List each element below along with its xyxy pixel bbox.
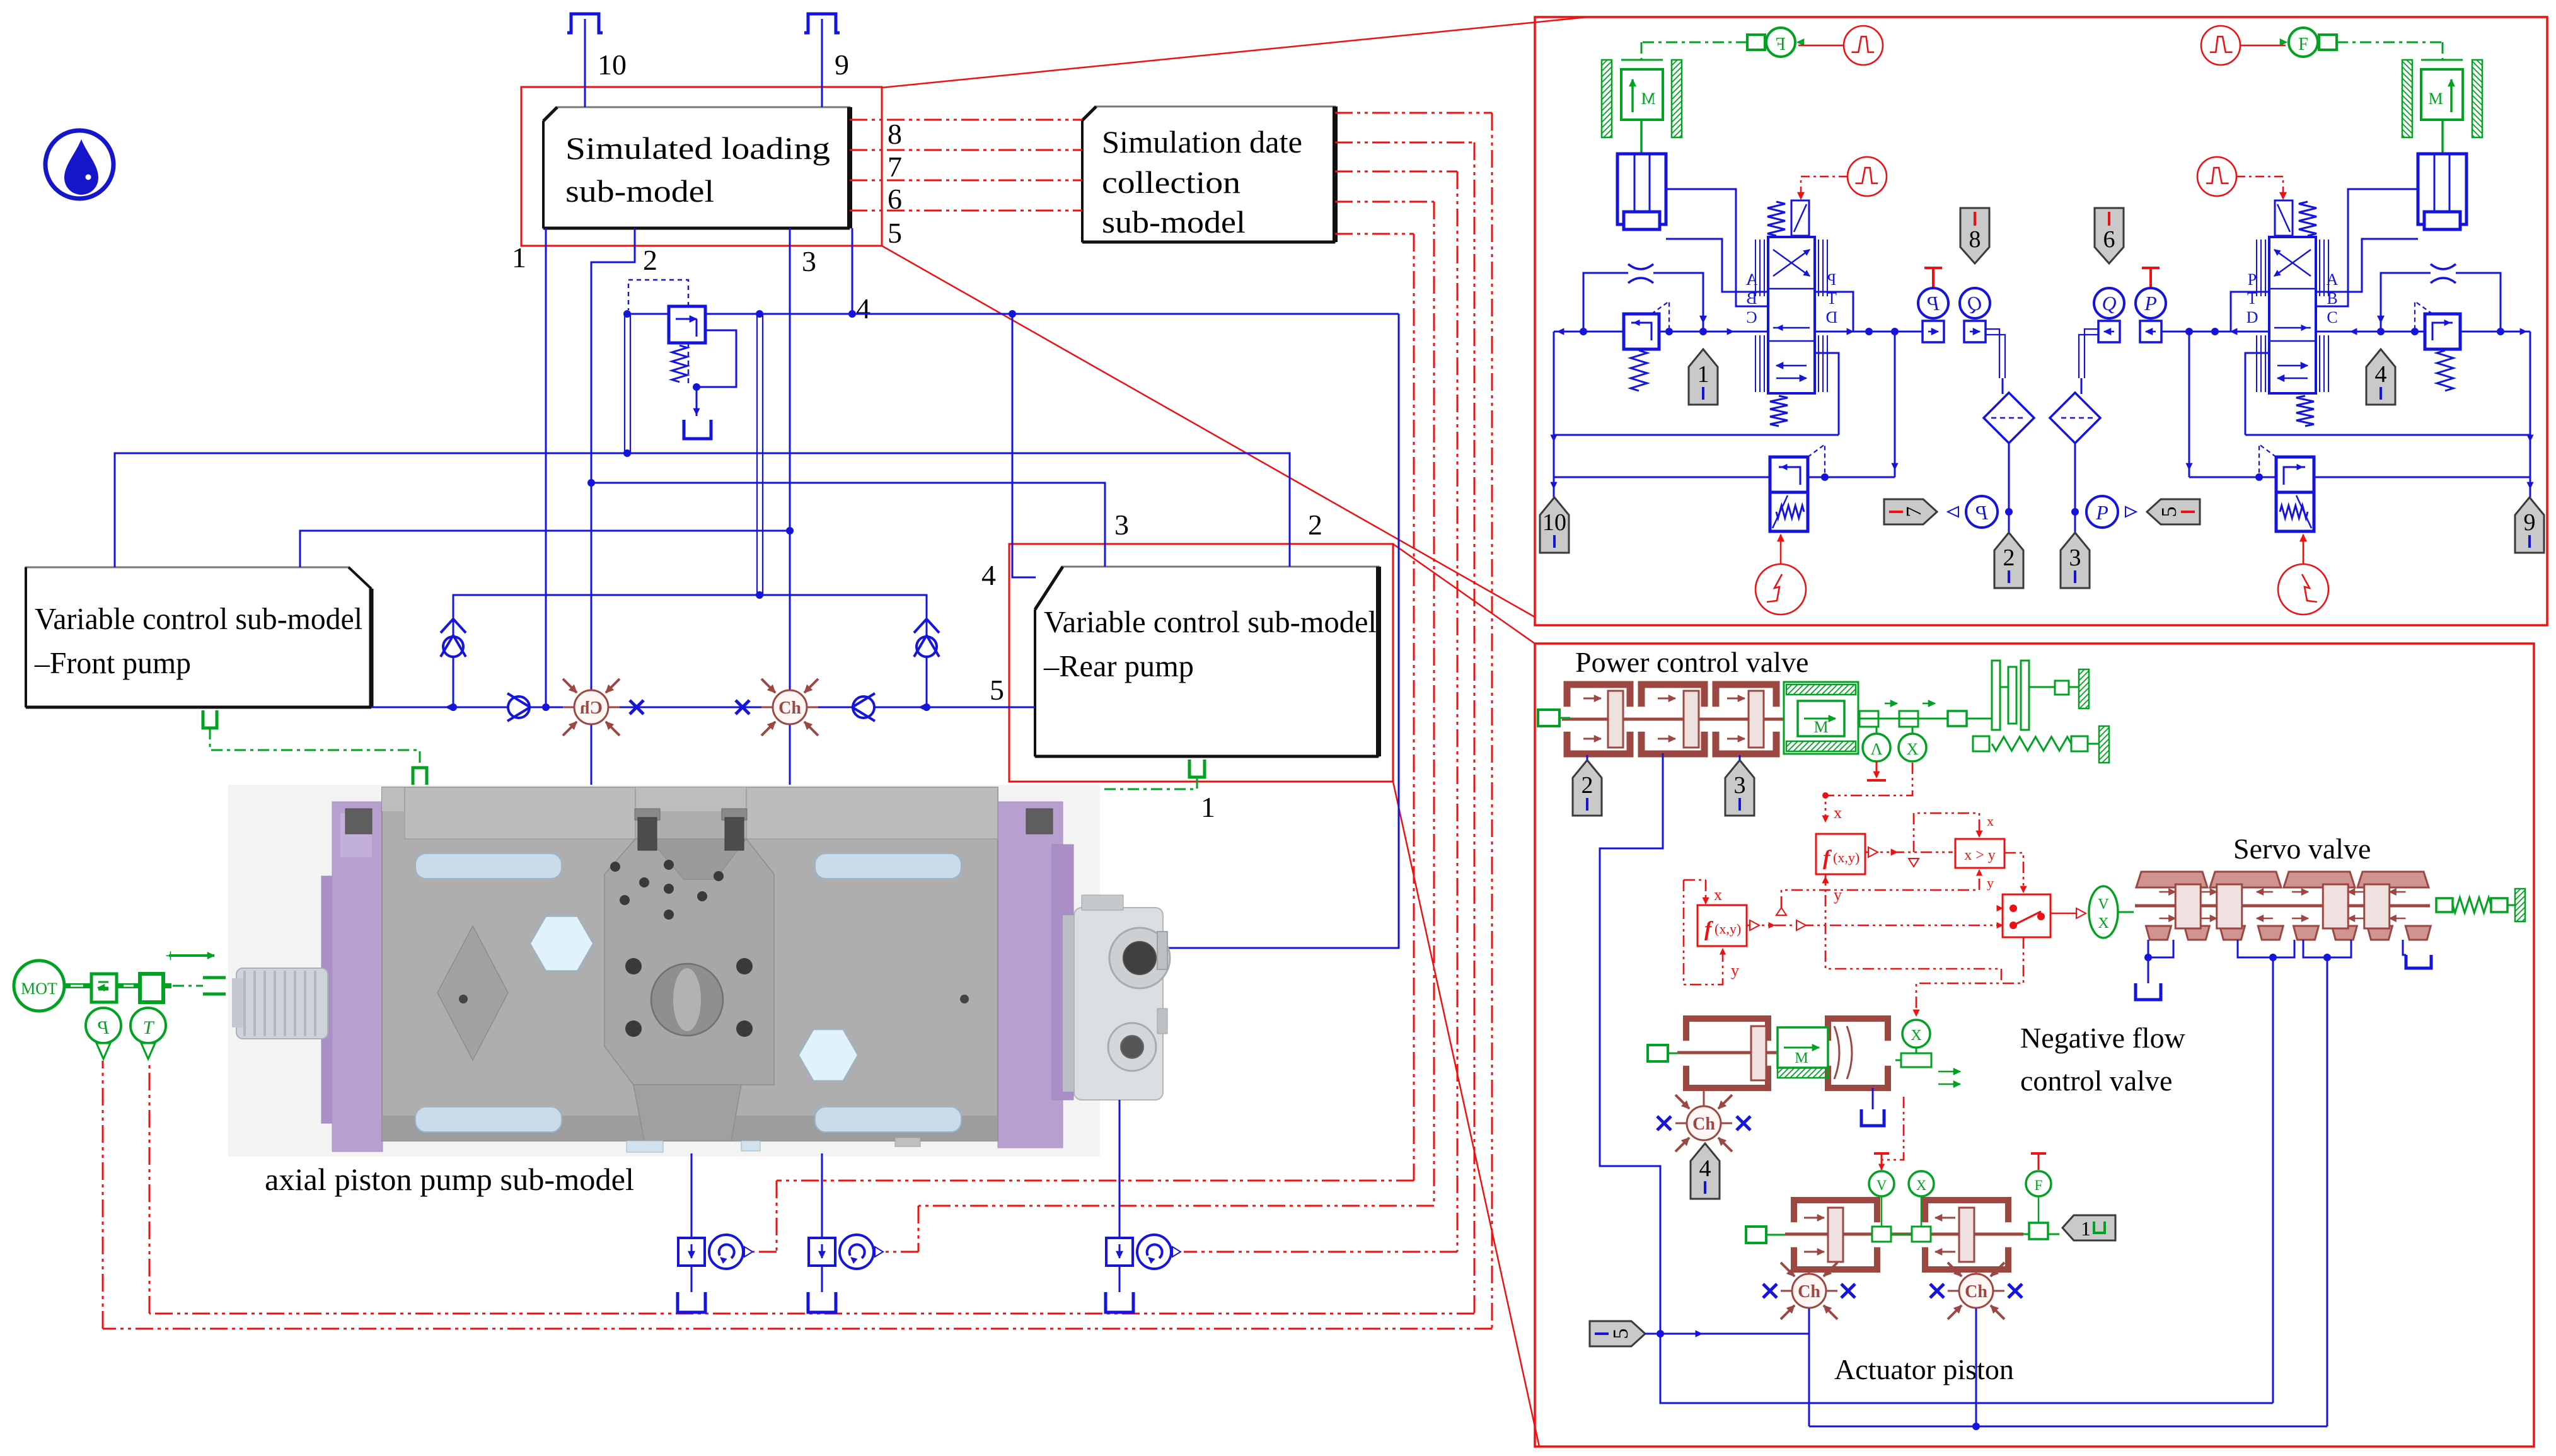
Q gauge xyxy=(2094,288,2124,318)
svg-text:Variable control sub-model: Variable control sub-model xyxy=(1044,604,1377,639)
svg-text:D: D xyxy=(1826,308,1838,326)
signal source 2 xyxy=(1848,157,1887,196)
speed arrow xyxy=(169,954,214,957)
svg-text:x: x xyxy=(1987,813,1994,829)
flow sensor S3 xyxy=(1106,1238,1133,1266)
svg-text:P: P xyxy=(2095,501,2108,524)
svg-text:2: 2 xyxy=(1308,509,1322,541)
wire H944 xyxy=(453,595,927,707)
P gauge xyxy=(1918,288,1948,318)
H2 xyxy=(2245,434,2530,436)
check valve CV3 (vertical) xyxy=(917,637,937,657)
wire port4 vertical xyxy=(852,228,853,314)
svg-text:3: 3 xyxy=(1734,772,1746,799)
linkage spring xyxy=(1973,736,1989,751)
main line H1 xyxy=(2460,331,2530,333)
V X circles xyxy=(1859,711,1878,727)
svg-text:M: M xyxy=(1641,90,1655,108)
svg-text:Negative flow: Negative flow xyxy=(2020,1022,2186,1054)
wire port4b vertical xyxy=(1012,314,1036,577)
svg-text:5: 5 xyxy=(990,674,1004,706)
svg-text:y: y xyxy=(1987,875,1994,891)
left edge vertical xyxy=(2530,332,2531,497)
svg-text:9: 9 xyxy=(835,49,849,81)
red zoom rect (rear pump) xyxy=(1009,544,1393,782)
svg-text:P: P xyxy=(98,1017,110,1038)
servo valve body xyxy=(2136,872,2207,887)
pump right purple flange xyxy=(998,802,1063,1148)
pump top bolts xyxy=(635,809,660,820)
svg-text:x: x xyxy=(1834,804,1842,822)
zoom diagonal D3 xyxy=(1393,544,1535,644)
svg-text:sub-model: sub-model xyxy=(1102,204,1246,240)
svg-text:Λ: Λ xyxy=(1871,740,1883,758)
wire port1 vertical xyxy=(545,228,547,707)
tank T1 xyxy=(684,420,711,439)
F source xyxy=(2289,28,2318,57)
wire to rear pump outlet xyxy=(1163,314,1399,948)
svg-text:1: 1 xyxy=(2081,1217,2091,1240)
cylinder-valve link xyxy=(2316,189,2418,306)
svg-text:A: A xyxy=(1745,270,1757,289)
svg-text:X: X xyxy=(1907,740,1919,758)
mass with guides xyxy=(2472,60,2482,137)
svg-text:A: A xyxy=(2327,270,2339,289)
svg-text:F: F xyxy=(1776,35,1786,54)
pump gearbox xyxy=(1063,915,1080,1092)
svg-text:Simulation date: Simulation date xyxy=(1102,124,1302,159)
P gauge xyxy=(2136,288,2166,318)
flow sensor S1 xyxy=(678,1238,705,1266)
elbow pipe to filter xyxy=(2085,329,2099,378)
svg-text:P: P xyxy=(1827,270,1836,289)
signal feedback horizontals bottom xyxy=(103,1328,1492,1330)
main line H1 xyxy=(1554,331,1624,333)
signal source 1 xyxy=(2201,26,2240,65)
pump small holes xyxy=(625,958,642,974)
wire H842 xyxy=(300,531,790,567)
svg-text:X: X xyxy=(1916,1177,1927,1193)
relief valve B xyxy=(1770,457,1808,492)
VX oval xyxy=(2089,886,2118,938)
svg-text:Actuator piston: Actuator piston xyxy=(1834,1353,2014,1385)
svg-text:1: 1 xyxy=(512,241,526,274)
svg-text:X: X xyxy=(2098,915,2108,932)
svg-text:5: 5 xyxy=(1609,1329,1633,1339)
pipe double vertical x995 xyxy=(624,314,625,453)
green linkage assembly xyxy=(1948,711,1967,726)
cylinder xyxy=(2418,154,2466,224)
check valve CV2 xyxy=(853,696,874,718)
H2 xyxy=(1554,434,1839,436)
svg-text:(x,y): (x,y) xyxy=(1833,850,1859,865)
green port pump front xyxy=(413,768,427,785)
wire H1122 main pump line xyxy=(371,707,1035,708)
tags top-right box xyxy=(1689,349,1718,405)
bottom box blue wiring xyxy=(1600,753,2273,1403)
mass with guides xyxy=(1602,60,1612,137)
svg-text:Ch: Ch xyxy=(778,698,801,718)
power control valve spool xyxy=(1567,685,1630,707)
directional valve xyxy=(2299,202,2316,236)
filter down line xyxy=(2008,442,2010,533)
svg-text:X: X xyxy=(1911,1027,1921,1044)
relief valve A xyxy=(1624,314,1659,349)
orifice loop xyxy=(2456,273,2501,332)
svg-text:F: F xyxy=(2035,1177,2043,1193)
signal lines collection->right xyxy=(1335,112,1492,114)
wire port3 vertical xyxy=(789,228,791,692)
P gauge bottom xyxy=(2086,496,2118,528)
RV1 drain loop xyxy=(697,330,736,387)
svg-text:8: 8 xyxy=(888,118,902,150)
relief valve B xyxy=(2276,457,2314,492)
actuator V X F circles xyxy=(1869,1171,1894,1196)
H3 xyxy=(2314,477,2530,478)
directional valve xyxy=(1767,202,1785,236)
svg-text:7: 7 xyxy=(888,151,902,183)
svg-text:M: M xyxy=(1795,1050,1808,1066)
red detail box top-right xyxy=(1535,17,2547,625)
orifice Ch1 xyxy=(574,690,608,724)
svg-text:x > y: x > y xyxy=(1964,847,1996,864)
svg-text:4: 4 xyxy=(856,292,870,325)
svg-text:5: 5 xyxy=(888,217,902,249)
X circle NFC xyxy=(1902,1020,1930,1048)
servo spring xyxy=(2436,898,2453,912)
svg-text:collection: collection xyxy=(1102,165,1240,200)
Ch NFC xyxy=(1703,1088,1705,1106)
svg-text:MOT: MOT xyxy=(21,979,57,998)
F source xyxy=(1766,28,1795,57)
tag 1 actuator xyxy=(2062,1215,2115,1240)
left edge vertical xyxy=(1553,332,1555,497)
top-right detail : right half (mirrored) xyxy=(2050,26,2533,615)
svg-text:Servo valve: Servo valve xyxy=(2233,833,2371,865)
relief valve A xyxy=(2425,314,2460,349)
svg-text:2: 2 xyxy=(643,244,657,276)
svg-text:Q: Q xyxy=(1967,292,1982,315)
cylinder-valve link xyxy=(1666,189,1768,306)
svg-text:4: 4 xyxy=(1699,1155,1711,1182)
valve right links xyxy=(1815,292,1853,332)
pump top raised blocks xyxy=(405,787,635,839)
svg-text:–Rear pump: –Rear pump xyxy=(1043,649,1194,683)
actuator Ch symbols xyxy=(1808,1269,1810,1274)
svg-text:2: 2 xyxy=(2003,545,2015,571)
red zoom rect (loading) xyxy=(521,87,882,246)
sensor tanks xyxy=(691,1266,693,1292)
green port rear box xyxy=(1189,760,1205,777)
svg-text:Q: Q xyxy=(2102,292,2116,315)
f(x,y) box 1 xyxy=(1816,834,1865,874)
top-right detail : left half xyxy=(1551,26,2034,615)
svg-text:Power control valve: Power control valve xyxy=(1575,646,1808,678)
svg-text:3: 3 xyxy=(802,245,816,277)
pump diamond xyxy=(437,926,508,1060)
svg-text:D: D xyxy=(2247,308,2258,326)
svg-text:P: P xyxy=(2248,270,2257,289)
pipe double vertical x1205 xyxy=(756,314,758,595)
pump port lines down xyxy=(691,1153,693,1238)
svg-text:6: 6 xyxy=(2103,226,2115,253)
valve right links xyxy=(2231,292,2269,332)
svg-text:axial piston pump sub-model: axial piston pump sub-model xyxy=(265,1162,634,1197)
port 10 riser xyxy=(567,14,603,33)
f2 out to switch xyxy=(1747,925,2003,927)
svg-text:3: 3 xyxy=(2069,545,2081,571)
svg-text:Ch: Ch xyxy=(580,698,603,718)
pump center circle xyxy=(651,964,723,1036)
svg-text:10: 10 xyxy=(598,49,627,81)
svg-text:P: P xyxy=(1975,501,1989,524)
green port pcv xyxy=(1538,710,1559,726)
zoom diagonal D1 xyxy=(882,17,1588,88)
Q gauge xyxy=(1960,288,1990,318)
svg-text:V: V xyxy=(1877,1177,1887,1193)
signal lines loading->collection xyxy=(850,119,1082,121)
svg-text:control valve: control valve xyxy=(2020,1065,2172,1097)
svg-text:10: 10 xyxy=(1542,509,1566,536)
svg-text:Ch: Ch xyxy=(1692,1114,1715,1134)
svg-text:Ch: Ch xyxy=(1798,1282,1820,1302)
logo drop xyxy=(45,130,113,199)
green M box xyxy=(1784,682,1858,754)
wire port2 vertical xyxy=(591,228,635,692)
pump center block xyxy=(604,839,774,1085)
green port front box xyxy=(203,710,217,728)
svg-text:T: T xyxy=(143,1017,155,1038)
svg-text:6: 6 xyxy=(888,183,902,215)
svg-text:1: 1 xyxy=(1201,791,1215,823)
P gauge bottom xyxy=(1966,496,1998,528)
svg-text:x: x xyxy=(1714,886,1722,904)
pump body xyxy=(382,787,998,1141)
pump feet xyxy=(627,1141,663,1152)
svg-text:M: M xyxy=(2428,90,2443,108)
svg-text:C: C xyxy=(1746,308,1757,326)
port 9 riser xyxy=(804,14,840,33)
tags pcv xyxy=(1573,760,1602,816)
pump left purple flange xyxy=(321,876,338,1123)
box: Simulation date collection sub-model xyxy=(1082,107,1335,242)
signal source 2 xyxy=(2197,157,2236,196)
red T marks xyxy=(1881,1153,1883,1170)
svg-text:B: B xyxy=(1746,289,1757,308)
x>y box xyxy=(1955,839,2004,868)
zoom diagonal D2 xyxy=(882,246,1535,617)
box: Variable control sub-model Front pump xyxy=(26,567,371,707)
svg-text:1: 1 xyxy=(1697,361,1709,388)
MOT prime mover xyxy=(14,961,64,1011)
T gauge xyxy=(130,1008,166,1043)
svg-text:3: 3 xyxy=(1114,509,1129,541)
f(x,y) box 2 xyxy=(1697,905,1747,946)
svg-text:P: P xyxy=(1927,292,1940,315)
elbow pipe to filter xyxy=(1985,329,1999,378)
web link lines xyxy=(1776,908,1786,915)
zoom diagonal D4 xyxy=(1393,782,1539,1447)
svg-text:(x,y): (x,y) xyxy=(1715,921,1741,937)
svg-text:sub-model: sub-model xyxy=(565,173,714,209)
svg-text:4: 4 xyxy=(981,559,996,591)
H3 xyxy=(1554,477,1770,478)
svg-text:B: B xyxy=(2327,289,2337,308)
filter xyxy=(2050,393,2100,443)
NFC tank xyxy=(1872,1088,1874,1109)
signal source 1 xyxy=(1844,26,1883,65)
box: Simulated loading sub-model xyxy=(543,107,850,228)
pump hexagons xyxy=(530,916,593,971)
svg-text:Ch: Ch xyxy=(1965,1282,1987,1302)
servo drains xyxy=(2148,940,2173,957)
signal source 3 xyxy=(1755,564,1806,615)
negative flow control valve xyxy=(1686,1019,1768,1041)
red control web xyxy=(1825,763,1912,819)
svg-text:5: 5 xyxy=(2158,507,2181,517)
pump shaft xyxy=(236,968,328,1039)
shaft dashes xyxy=(163,983,171,988)
switch to servo xyxy=(2050,913,2085,915)
svg-text:F: F xyxy=(2298,35,2308,54)
red ground xyxy=(1876,761,1878,777)
tag 5 bottom box xyxy=(1590,1321,1645,1346)
svg-text:+: + xyxy=(165,945,176,966)
svg-text:y: y xyxy=(1834,886,1842,904)
pump bottom pillar xyxy=(633,1085,741,1141)
signal source 3 xyxy=(2278,564,2328,615)
filter down line xyxy=(2074,442,2076,533)
svg-text:2: 2 xyxy=(1582,772,1593,799)
svg-text:7: 7 xyxy=(1902,507,1926,517)
check valve CV1 xyxy=(508,696,529,718)
svg-text:P: P xyxy=(2144,292,2157,315)
box: Variable control sub-model Rear pump xyxy=(1035,567,1379,756)
wire H498 relief line xyxy=(627,313,1399,315)
orifice loop xyxy=(1583,273,1628,332)
svg-text:Simulated loading: Simulated loading xyxy=(565,130,830,166)
P gauge xyxy=(86,1008,121,1043)
axial piston pump picture xyxy=(228,785,1100,1157)
svg-text:C: C xyxy=(2327,308,2337,326)
svg-text:8: 8 xyxy=(1969,226,1981,253)
green port pump rear xyxy=(957,808,971,826)
actuator piston xyxy=(1794,1200,1877,1222)
red detail box bottom-right xyxy=(1535,644,2534,1447)
flow sensor S2 xyxy=(809,1238,835,1266)
svg-text:9: 9 xyxy=(2524,509,2536,536)
filter xyxy=(1984,393,2034,443)
cylinder xyxy=(1617,154,1666,224)
relief valve RV1 xyxy=(669,306,705,343)
orifice Ch2 xyxy=(773,690,807,724)
svg-text:M: M xyxy=(1813,718,1828,736)
svg-text:Variable control sub-model: Variable control sub-model xyxy=(35,601,362,636)
pump rods xyxy=(415,853,562,879)
check valve CV4 (vertical, near front) xyxy=(443,637,463,657)
switch box xyxy=(2003,894,2050,937)
wire H719 xyxy=(115,453,1290,567)
svg-text:y: y xyxy=(1731,961,1739,979)
svg-text:4: 4 xyxy=(2375,361,2387,388)
svg-text:–Front pump: –Front pump xyxy=(34,645,191,680)
wire H766 xyxy=(591,483,1105,567)
svg-text:V: V xyxy=(2098,896,2109,913)
